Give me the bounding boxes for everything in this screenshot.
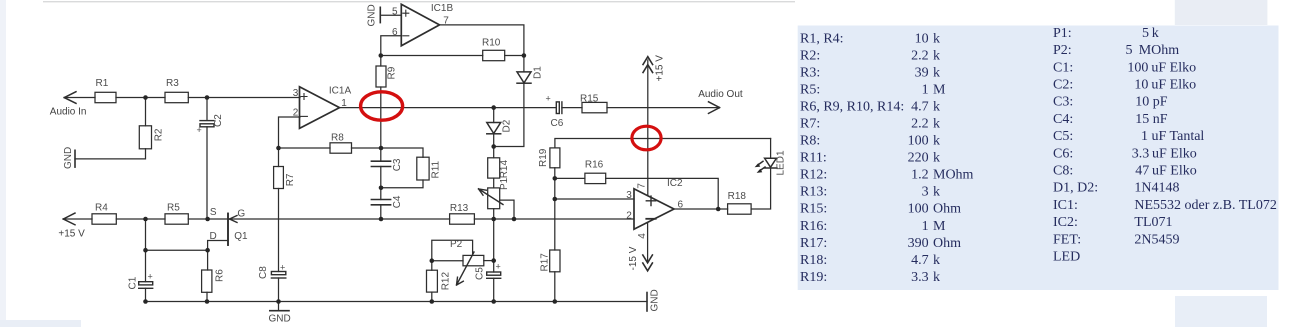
svg-text:1.2: 1.2 bbox=[911, 168, 929, 183]
svg-text:C3:: C3: bbox=[1053, 95, 1073, 110]
wire IC1B out pin7 bbox=[440, 25, 524, 56]
svg-text:+: + bbox=[148, 272, 153, 282]
svg-text:IC1B: IC1B bbox=[431, 3, 454, 14]
svg-text:R2: R2 bbox=[154, 128, 165, 141]
svg-text:S: S bbox=[210, 207, 217, 218]
parts list column 1 bbox=[800, 32, 974, 285]
svg-text:k: k bbox=[933, 100, 940, 115]
svg-text:R17:: R17: bbox=[800, 236, 827, 251]
ground stub below C8 bbox=[278, 302, 280, 311]
wire C5 to rail bbox=[493, 278, 495, 301]
svg-text:2: 2 bbox=[626, 210, 632, 221]
op-amp IC1A bbox=[300, 87, 340, 129]
P2 wiper arrow bbox=[457, 252, 475, 285]
wire R11 top branch bbox=[381, 148, 423, 157]
wire C4 to rail bbox=[380, 205, 382, 219]
resistor R3 bbox=[165, 92, 188, 102]
svg-text:uF Elko: uF Elko bbox=[1152, 146, 1197, 161]
svg-text:100: 100 bbox=[1127, 60, 1148, 75]
wire IC1A output bbox=[340, 107, 556, 109]
svg-text:5: 5 bbox=[392, 6, 398, 17]
LED light arrows bbox=[758, 161, 765, 170]
transistor Q1 channel bar bbox=[227, 214, 229, 246]
svg-text:7: 7 bbox=[636, 183, 647, 189]
wire node to R9 bbox=[380, 56, 382, 67]
wire D1 anode bbox=[523, 56, 525, 72]
wire R9 down across out line to C3 node bbox=[380, 87, 382, 148]
svg-text:G: G bbox=[237, 208, 245, 219]
wire C3 top bbox=[380, 148, 382, 161]
svg-text:GND: GND bbox=[367, 4, 378, 26]
+15V arrow bbox=[643, 57, 653, 73]
svg-text:7: 7 bbox=[443, 16, 449, 27]
wire R3 to IC1A pin3 bbox=[188, 97, 300, 99]
svg-text:1: 1 bbox=[922, 219, 929, 234]
svg-text:3: 3 bbox=[293, 88, 299, 99]
red highlight circle 1 bbox=[361, 92, 403, 120]
wire R13 to IC2 pin2 bbox=[474, 218, 634, 220]
svg-text:-15 V: -15 V bbox=[628, 246, 639, 270]
bottom rail bbox=[146, 301, 648, 303]
wire C3 to C4 bbox=[380, 167, 382, 200]
resistor R6 bbox=[202, 270, 212, 292]
potentiometer P2 bbox=[463, 255, 484, 265]
svg-text:C6:: C6: bbox=[1053, 146, 1073, 161]
wire C5 column bbox=[493, 219, 495, 261]
svg-text:GND: GND bbox=[63, 147, 74, 169]
capacitor C1 bbox=[139, 282, 153, 289]
svg-text:R12:: R12: bbox=[800, 168, 827, 183]
svg-text:R9: R9 bbox=[387, 66, 398, 79]
svg-text:uF Tantal: uF Tantal bbox=[1152, 129, 1205, 144]
svg-text:+: + bbox=[546, 94, 551, 104]
wire node B to C2 bbox=[206, 98, 208, 121]
wire IC1B pin5 to GND bbox=[380, 14, 401, 16]
wire node to drain node bbox=[146, 249, 208, 251]
wire out line to D2 bbox=[493, 108, 495, 123]
wire R14 to P1 bbox=[493, 178, 495, 188]
schematic labels bbox=[50, 3, 787, 325]
svg-text:R6: R6 bbox=[215, 269, 226, 282]
wire rail node down bbox=[145, 219, 147, 250]
svg-text:3.3: 3.3 bbox=[1132, 146, 1150, 161]
wire node to R8 bbox=[279, 147, 331, 149]
resistor R18 bbox=[728, 204, 752, 214]
svg-text:Q1: Q1 bbox=[234, 231, 248, 242]
svg-text:TL071: TL071 bbox=[1134, 215, 1172, 230]
svg-text:15: 15 bbox=[1135, 112, 1149, 127]
svg-text:FET:: FET: bbox=[1053, 232, 1081, 247]
svg-text:C6: C6 bbox=[551, 118, 564, 129]
wire C2 to S node bbox=[206, 127, 208, 219]
wire R11 bottom branch bbox=[381, 180, 423, 188]
capacitor C8 bbox=[271, 272, 285, 279]
svg-text:1: 1 bbox=[341, 98, 347, 109]
resistor R5 bbox=[165, 214, 188, 224]
svg-text:C5:: C5: bbox=[1053, 129, 1073, 144]
svg-text:100: 100 bbox=[908, 202, 929, 217]
LED LED1 bbox=[764, 158, 777, 168]
svg-text:2: 2 bbox=[293, 107, 299, 118]
wire R19 top to LED line bbox=[555, 139, 771, 148]
svg-text:R5: R5 bbox=[167, 203, 180, 214]
+15V arrow left bbox=[63, 213, 75, 225]
ground bar below C8 bbox=[270, 310, 289, 312]
svg-text:R3:: R3: bbox=[800, 66, 820, 81]
Audio Out arrow bbox=[709, 102, 720, 114]
svg-text:IC2: IC2 bbox=[667, 178, 683, 189]
svg-text:R18:: R18: bbox=[800, 253, 827, 268]
svg-text:+: + bbox=[280, 263, 285, 273]
wire R8 to C3 node bbox=[352, 147, 382, 149]
svg-text:D2: D2 bbox=[502, 119, 513, 132]
potentiometer P1 bbox=[488, 188, 500, 209]
svg-text:LED1: LED1 bbox=[776, 150, 787, 175]
svg-text:R6, R9, R10, R14:: R6, R9, R10, R14: bbox=[800, 100, 904, 115]
svg-text:6: 6 bbox=[392, 27, 398, 38]
diode D2 bbox=[487, 123, 501, 134]
svg-text:R19:: R19: bbox=[800, 270, 827, 285]
-15V arrow bbox=[643, 255, 653, 271]
+15V supply line bbox=[647, 60, 649, 195]
svg-text:390: 390 bbox=[908, 236, 929, 251]
svg-text:P2:: P2: bbox=[1053, 43, 1072, 58]
resistor R9 bbox=[376, 66, 386, 87]
wire R5 to S node bbox=[188, 218, 228, 220]
wire C1 to rail bbox=[145, 288, 147, 301]
wire node A to R2 bbox=[145, 98, 147, 126]
diode D1 bbox=[517, 72, 531, 83]
op-amp IC2 bbox=[634, 189, 674, 229]
ground bar right end of rail bbox=[646, 293, 648, 312]
svg-text:R3: R3 bbox=[166, 78, 179, 89]
svg-text:+: + bbox=[197, 125, 202, 135]
wire node to R7 bbox=[278, 148, 280, 167]
svg-text:47: 47 bbox=[1135, 164, 1149, 179]
P1 wiper arrow bbox=[479, 189, 504, 205]
IC2 pin4 line bbox=[647, 223, 649, 262]
resistor R15 bbox=[582, 102, 607, 112]
wire IC1A pin2 bbox=[279, 117, 301, 148]
svg-text:IC1:: IC1: bbox=[1053, 198, 1078, 213]
svg-text:D: D bbox=[210, 231, 217, 242]
wire pin3 bbox=[555, 198, 634, 200]
resistor R4 bbox=[92, 214, 116, 224]
ground bar R2 bbox=[74, 150, 76, 167]
svg-text:2.2: 2.2 bbox=[911, 117, 929, 132]
wire R10 to D1 node bbox=[505, 55, 524, 57]
ground bar IC1B bbox=[379, 7, 381, 22]
resistor R7 bbox=[274, 167, 284, 189]
svg-text:C5: C5 bbox=[475, 267, 486, 280]
wire drain node to R6 bbox=[207, 250, 209, 270]
svg-text:R8:: R8: bbox=[800, 134, 820, 149]
svg-text:D1: D1 bbox=[533, 66, 544, 79]
svg-text:k: k bbox=[933, 32, 940, 47]
svg-text:D1, D2:: D1, D2: bbox=[1053, 181, 1098, 196]
svg-text:R12: R12 bbox=[441, 272, 452, 291]
svg-text:NE5532 oder z.B. TL072: NE5532 oder z.B. TL072 bbox=[1134, 198, 1276, 213]
svg-text:C1: C1 bbox=[128, 276, 139, 289]
wire R6 to rail bbox=[206, 292, 208, 301]
wire node to R12 bbox=[431, 261, 433, 271]
svg-text:LED: LED bbox=[1053, 250, 1080, 265]
svg-text:R14: R14 bbox=[499, 160, 510, 179]
svg-text:IC2:: IC2: bbox=[1053, 215, 1078, 230]
svg-text:Audio In: Audio In bbox=[50, 106, 87, 117]
svg-text:uF Elko: uF Elko bbox=[1152, 164, 1197, 179]
svg-text:220: 220 bbox=[908, 151, 929, 166]
svg-text:R13: R13 bbox=[450, 203, 469, 214]
svg-text:+15 V: +15 V bbox=[58, 229, 85, 240]
parts list column 2 bbox=[1053, 26, 1277, 265]
svg-text:k: k bbox=[933, 185, 940, 200]
svg-text:5: 5 bbox=[1126, 43, 1133, 58]
parts list panel bbox=[798, 26, 1279, 291]
wire R19 node down to R17 bbox=[554, 199, 556, 250]
Audio In arrow bbox=[64, 92, 76, 104]
wire LED cathode to R18 node bbox=[751, 168, 771, 209]
wire LED line down bbox=[770, 139, 772, 159]
svg-text:1: 1 bbox=[922, 83, 929, 98]
svg-text:P1: P1 bbox=[499, 177, 510, 190]
resistor R13 bbox=[450, 214, 475, 224]
svg-text:pF: pF bbox=[1153, 95, 1168, 110]
svg-text:C8:: C8: bbox=[1053, 164, 1073, 179]
svg-text:R4: R4 bbox=[95, 203, 108, 214]
wire D1 cathode down to D2 node bbox=[494, 83, 524, 146]
svg-text:4.7: 4.7 bbox=[911, 100, 929, 115]
svg-text:100: 100 bbox=[908, 134, 929, 149]
wire pin6 node to R10 bbox=[381, 55, 483, 57]
resistor R1 bbox=[95, 92, 116, 102]
svg-text:R15:: R15: bbox=[800, 202, 827, 217]
wire R2 to GND bbox=[75, 149, 146, 159]
svg-text:M: M bbox=[933, 219, 946, 234]
resistor R19 bbox=[550, 148, 560, 168]
svg-text:R16:: R16: bbox=[800, 219, 827, 234]
svg-text:Ohm: Ohm bbox=[933, 202, 961, 217]
svg-text:R11:: R11: bbox=[800, 151, 827, 166]
svg-text:3.3: 3.3 bbox=[911, 270, 929, 285]
svg-text:k: k bbox=[933, 117, 940, 132]
svg-text:R1, R4:: R1, R4: bbox=[800, 32, 844, 47]
svg-text:R18: R18 bbox=[728, 191, 747, 202]
svg-text:1: 1 bbox=[1141, 129, 1148, 144]
capacitor C5 bbox=[487, 272, 501, 278]
svg-text:R10: R10 bbox=[482, 37, 501, 48]
svg-text:C2: C2 bbox=[213, 114, 224, 127]
wire C8 to rail bbox=[278, 278, 280, 302]
capacitor C3 bbox=[371, 161, 390, 166]
Q1 gate wire with arrow bbox=[229, 218, 450, 220]
resistor R11 bbox=[417, 157, 429, 180]
resistor R10 bbox=[483, 50, 505, 60]
svg-text:C8: C8 bbox=[258, 266, 269, 279]
wire R15 to Audio Out bbox=[607, 107, 719, 109]
wire node to R16 bbox=[555, 177, 585, 179]
svg-text:C3: C3 bbox=[392, 158, 403, 171]
svg-text:R13:: R13: bbox=[800, 185, 827, 200]
svg-text:R7: R7 bbox=[285, 173, 296, 186]
svg-text:R5:: R5: bbox=[800, 83, 820, 98]
svg-text:Ohm: Ohm bbox=[933, 236, 961, 251]
svg-text:k: k bbox=[933, 66, 940, 81]
svg-text:2.2: 2.2 bbox=[911, 49, 929, 64]
svg-text:P1:: P1: bbox=[1053, 26, 1072, 41]
resistor R16 bbox=[585, 173, 606, 183]
svg-text:IC1A: IC1A bbox=[329, 85, 352, 96]
svg-text:P2: P2 bbox=[450, 239, 463, 250]
svg-text:C1:: C1: bbox=[1053, 60, 1073, 75]
svg-text:1N4148: 1N4148 bbox=[1134, 181, 1179, 196]
wire IC1B pin6 bbox=[381, 36, 402, 56]
wire C6 to R15 bbox=[562, 107, 582, 109]
svg-text:+15 V: +15 V bbox=[655, 55, 666, 82]
svg-text:MOhm: MOhm bbox=[1139, 43, 1180, 58]
svg-text:10: 10 bbox=[915, 32, 929, 47]
P1 wiper wire bbox=[500, 200, 514, 219]
svg-text:R8: R8 bbox=[331, 132, 344, 143]
wire Audio In to R1 bbox=[64, 97, 95, 99]
wire node to R18 bbox=[718, 208, 727, 210]
svg-text:M: M bbox=[933, 83, 946, 98]
wire R16 feedback to output node bbox=[606, 178, 719, 209]
svg-text:uF Elko: uF Elko bbox=[1151, 78, 1196, 93]
wire IC2 output pin6 bbox=[674, 208, 718, 210]
svg-text:R16: R16 bbox=[585, 160, 604, 171]
svg-text:k: k bbox=[933, 151, 940, 166]
svg-text:R17: R17 bbox=[540, 253, 551, 272]
svg-text:nF: nF bbox=[1153, 112, 1168, 127]
svg-text:uF Elko: uF Elko bbox=[1151, 60, 1196, 75]
wire R7 to C8 bbox=[278, 189, 280, 272]
svg-text:R15: R15 bbox=[580, 93, 599, 104]
svg-text:4.7: 4.7 bbox=[911, 253, 929, 268]
wire node to C5 bbox=[493, 261, 495, 272]
resistor R14 bbox=[488, 158, 500, 178]
svg-text:6: 6 bbox=[678, 199, 684, 210]
wire P2 right to C5 bbox=[484, 260, 494, 262]
wire R17 to rail bbox=[554, 272, 556, 302]
svg-text:4: 4 bbox=[637, 233, 648, 239]
wire R19 bottom node bbox=[554, 168, 556, 199]
wire P2 left bbox=[432, 260, 463, 262]
wire D2 to R14 bbox=[493, 134, 495, 158]
svg-text:GND: GND bbox=[650, 289, 661, 311]
svg-text:C2:: C2: bbox=[1053, 78, 1073, 93]
svg-text:GND: GND bbox=[269, 314, 291, 325]
svg-text:R7:: R7: bbox=[800, 117, 820, 132]
wire R1 to node bbox=[116, 97, 165, 99]
resistor R2 bbox=[139, 126, 151, 149]
svg-text:39: 39 bbox=[915, 66, 929, 81]
svg-text:R11: R11 bbox=[431, 160, 442, 178]
capacitor C6 bbox=[556, 102, 562, 114]
svg-text:Audio Out: Audio Out bbox=[698, 89, 743, 100]
svg-text:R19: R19 bbox=[538, 148, 549, 167]
svg-text:3: 3 bbox=[922, 185, 929, 200]
op-amp IC1B bbox=[401, 4, 439, 46]
capacitor C4 bbox=[371, 200, 390, 205]
svg-text:+: + bbox=[496, 262, 501, 272]
Q1 drain wire bbox=[208, 241, 228, 251]
resistor R17 bbox=[550, 250, 560, 272]
wire P1 bottom to rail bbox=[493, 209, 495, 219]
wire down to C1 bbox=[145, 250, 147, 282]
svg-text:10: 10 bbox=[1135, 95, 1149, 110]
resistor R8 bbox=[330, 143, 352, 153]
svg-text:k: k bbox=[1152, 26, 1159, 41]
red highlight circle 2 bbox=[632, 126, 661, 150]
svg-text:k: k bbox=[933, 49, 940, 64]
svg-text:2N5459: 2N5459 bbox=[1134, 232, 1179, 247]
svg-text:k: k bbox=[933, 253, 940, 268]
svg-text:k: k bbox=[933, 270, 940, 285]
svg-text:C4:: C4: bbox=[1053, 112, 1073, 127]
resistor R12 bbox=[427, 270, 438, 292]
svg-text:3: 3 bbox=[626, 190, 632, 201]
svg-text:10: 10 bbox=[1134, 78, 1148, 93]
svg-text:C4: C4 bbox=[392, 195, 403, 208]
wire R4 to node bbox=[116, 218, 165, 220]
svg-text:R2:: R2: bbox=[800, 49, 820, 64]
svg-text:MOhm: MOhm bbox=[933, 168, 974, 183]
svg-text:R1: R1 bbox=[96, 78, 109, 89]
svg-text:5: 5 bbox=[1142, 26, 1149, 41]
wire R12 to rail bbox=[431, 292, 433, 301]
capacitor C2 bbox=[200, 121, 214, 127]
P2 wiper wrap wire bbox=[432, 240, 473, 260]
svg-text:k: k bbox=[933, 134, 940, 149]
wire +15V arrow to R4 bbox=[63, 218, 92, 220]
